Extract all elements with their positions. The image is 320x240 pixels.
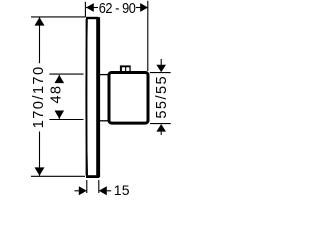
extension line top (48 dim) <box>49 73 83 75</box>
handle knob (side view) <box>109 73 148 124</box>
svg-text:48: 48 <box>48 85 64 104</box>
dimension line 62-90 <box>86 7 148 9</box>
valve body stub bottom <box>100 120 109 122</box>
valve body stub top <box>100 74 109 76</box>
dimension tail right (15 dim) <box>107 190 111 192</box>
dimension stub below (55 dim) <box>160 132 162 135</box>
svg-text:15: 15 <box>114 182 130 198</box>
extension line left (15 dim) <box>86 180 88 193</box>
extension line bottom (48 dim) <box>49 119 83 121</box>
arrow right of 62-90 <box>140 3 148 12</box>
extension line bottom (55 dim) <box>150 123 171 125</box>
extension line right (15 dim) <box>98 180 100 193</box>
wall plate (escutcheon, side view) <box>86 17 99 177</box>
dimension stub above (55 dim) <box>160 59 162 66</box>
dimension tail left (15 dim) <box>75 190 80 192</box>
arrow right-pointing (15 dim) <box>79 186 87 195</box>
svg-text:170/170: 170/170 <box>31 65 47 128</box>
extension line right (top dim, from knob corner) <box>147 1 149 71</box>
svg-text:62 - 90: 62 - 90 <box>99 0 136 16</box>
dimension line 48 <box>58 75 60 119</box>
arrow left of 62-90 <box>86 3 94 12</box>
extension line top-left (170 dim) <box>31 16 86 18</box>
arrow bottom of 170/170 <box>35 167 45 175</box>
extension line bottom-left (170 dim) <box>31 175 85 177</box>
svg-text:55/55: 55/55 <box>154 75 170 119</box>
arrow top of 170/170 <box>35 17 45 25</box>
arrow left-pointing (15 dim) <box>99 186 107 195</box>
arrow down onto top ext (55 dim) <box>156 65 166 73</box>
dimension line 170/170 <box>39 17 41 176</box>
button tab on knob top <box>120 65 131 73</box>
extension line top (55 dim) <box>150 72 171 74</box>
arrow top of 48 <box>55 75 65 83</box>
extension line left (top dim) <box>84 2 86 17</box>
arrow up onto bottom ext (55 dim) <box>156 124 166 132</box>
arrow bottom of 48 <box>55 111 65 119</box>
